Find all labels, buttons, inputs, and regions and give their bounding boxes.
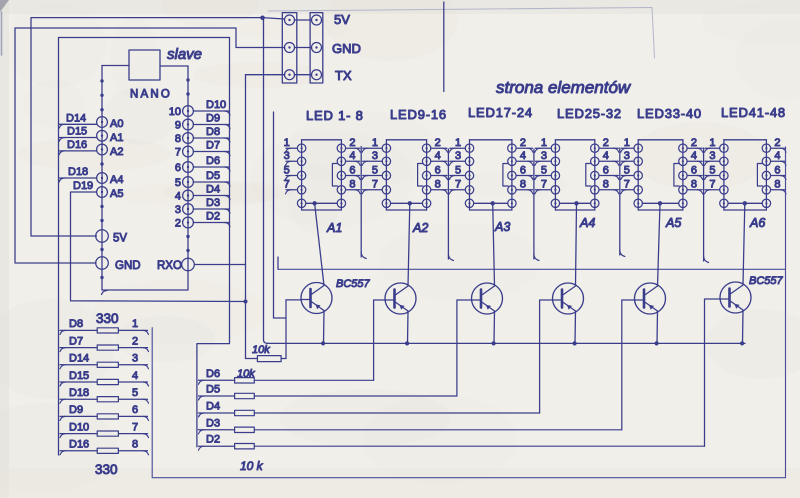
svg-text:5V: 5V [113,233,127,245]
svg-text:LED 1- 8: LED 1- 8 [306,108,364,123]
wire stubs pins 3/4 of block A5 [621,160,634,162]
svg-text:10 k: 10 k [240,459,264,473]
vertical wire x=444 top [443,2,445,92]
pin 10 (D10) of NANO [183,106,194,117]
svg-text:9: 9 [175,120,181,132]
wire stubs pins 7/8 of block A6 [705,189,720,191]
svg-text:8: 8 [175,133,181,145]
resistor 330 row 6 (D9) [60,415,97,417]
pin 4 (D4) of NANO [183,190,194,201]
svg-text:1: 1 [624,137,630,149]
pins 5/6 of block A1 [297,171,305,179]
serial header pin row 5V [285,15,295,25]
wire base Q4 [540,300,553,413]
svg-text:2: 2 [774,137,780,149]
svg-text:3: 3 [372,150,378,162]
pins 1/2 of block A3 [465,144,473,152]
long row return line (right edge + bottom + 330 bus) [152,147,785,478]
wire D6 row to Q2 base bus [254,379,373,381]
wire stubs pins 1/2 of block A6 [705,147,720,149]
svg-text:D2: D2 [206,211,220,223]
pins 1/2 of block A4 [551,144,559,152]
wire stubs pins 7/8 of block A2 [363,189,383,191]
pin 7 (D7) of NANO [183,146,194,157]
svg-text:7: 7 [132,421,138,433]
svg-text:D5: D5 [206,170,220,182]
unused pin dot [100,79,103,82]
pins 3/4 of block A4 [551,157,559,165]
serial connector header pins 5V GND TX [282,13,297,83]
wire stubs pins 5/6 of block A2 [363,175,383,177]
wire usb to left pin column [102,65,129,67]
svg-text:A2: A2 [110,146,123,158]
wire stubs pins 3/4 of block A2 [363,160,383,162]
svg-text:4: 4 [691,150,697,162]
pins 1/2 of block A6 [720,144,728,152]
svg-text:5: 5 [372,164,378,176]
pins 7/8 of block A2 [382,186,390,194]
svg-text:4: 4 [603,150,609,162]
svg-text:GND: GND [115,260,141,272]
svg-text:5V: 5V [334,12,350,27]
transistor Q1 BC557 [301,283,332,314]
svg-text:D3: D3 [206,417,220,429]
svg-text:7: 7 [175,147,181,159]
transistor Q3 BC557 [472,283,503,314]
svg-text:6: 6 [175,162,181,174]
resistor 10k row D2 [198,445,234,447]
junction Q2 emitter on rail [405,341,409,345]
resistor 330 row 1 (D8) [60,329,97,331]
svg-text:8: 8 [691,179,697,191]
svg-text:3: 3 [624,150,630,162]
wires D14 D15 D16 D18 from NANO left pins to box edge [60,123,97,125]
pins 1/2 of block A2 [382,144,390,152]
pins 1/2 of block A5 [634,144,642,152]
pins 7/8 of block A5 [634,186,642,194]
svg-text:3: 3 [541,150,547,162]
svg-text:5: 5 [284,164,290,176]
svg-text:3: 3 [132,353,138,365]
svg-text:6: 6 [435,164,441,176]
svg-text:D10: D10 [206,99,226,111]
svg-text:LED17-24: LED17-24 [468,105,533,120]
svg-text:1: 1 [709,137,715,149]
svg-text:3: 3 [284,150,290,162]
node A2 junction [408,201,412,205]
svg-text:D9: D9 [69,404,83,416]
pin 5 (D5) of NANO [183,177,194,188]
nano box right edge continuing down to 10k bus [197,38,230,447]
resistor 10k row D5 [198,395,234,397]
pin A0 (D14) of NANO [97,117,108,128]
svg-text:6: 6 [691,164,697,176]
svg-text:RXO: RXO [157,260,182,272]
svg-text:D19: D19 [73,180,93,192]
wire stubs pins 1/2 of block A1 [286,147,297,149]
pins common of block A3 [465,199,473,207]
svg-text:5: 5 [455,164,461,176]
pins common of block A5 [634,199,642,207]
pins common of block A2 [382,199,390,207]
svg-text:1: 1 [541,137,547,149]
wire stubs pins 5/6 of block A1 [286,175,297,177]
svg-text:7: 7 [541,179,547,191]
wire stubs pins 1/2 of block A3 [450,147,465,149]
svg-text:2: 2 [132,335,138,347]
svg-text:D14: D14 [66,112,86,124]
svg-text:D10: D10 [69,421,89,433]
svg-text:6: 6 [349,164,355,176]
svg-text:A0: A0 [110,118,123,130]
wire stubs pins 7/8 of block A1 [286,189,297,191]
svg-text:5: 5 [175,177,181,189]
junction Q1 emitter on rail [321,341,325,345]
pins 3/4 of block A1 [297,157,305,165]
svg-text:2: 2 [691,137,697,149]
unused pin dot [100,276,103,279]
svg-text:slave: slave [167,46,202,63]
transistor Q5 BC557 [635,283,666,314]
svg-text:1: 1 [455,137,461,149]
svg-text:1: 1 [372,137,378,149]
resistor 330 row 8 (D16) [60,450,97,452]
wire A2 common to Q2 collector [408,203,410,286]
svg-text:TX: TX [335,68,352,83]
pins 3/4 of block A3 [465,157,473,165]
svg-text:6: 6 [774,164,780,176]
svg-text:D18: D18 [68,166,88,178]
wire D2 row to Q6 base bus [254,445,704,447]
svg-text:1: 1 [284,137,290,149]
svg-text:D6: D6 [206,368,220,380]
pin A2 (D16) of NANO [97,144,108,155]
pins 1/2 of block A1 [297,144,305,152]
unused pin dot [100,162,103,165]
resistor 10k row D4 [198,412,234,414]
resistor 10k row D6 [198,379,234,381]
svg-text:3: 3 [175,204,181,216]
svg-text:4: 4 [349,150,355,162]
pins 7/8 of block A6 [720,186,728,194]
wire base Q3 [457,300,472,396]
pin 3 (D3) of NANO [183,204,194,215]
junction node 5V bus [260,15,265,20]
pin A5 (D19) of NANO [97,187,108,198]
svg-text:7: 7 [624,179,630,191]
resistor 330 row 3 (D14) [60,364,97,366]
svg-text:2: 2 [435,137,441,149]
svg-text:D18: D18 [69,387,89,399]
node A1 junction [312,201,316,205]
vertical bus left of LED41-48 [703,148,705,261]
emitter supply rail [267,342,745,344]
svg-text:D15: D15 [69,370,89,382]
pin 5V of NANO [96,230,109,243]
svg-text:BC557: BC557 [336,278,371,290]
serial header pin row GND [285,43,295,53]
wire stubs pins 5/6 of block A3 [450,175,465,177]
pins common of block A1 [297,199,305,207]
svg-text:5: 5 [132,387,138,399]
nano box left edge continuing as 330-resistor bus [58,38,60,456]
svg-text:330: 330 [96,311,119,326]
svg-text:D14: D14 [69,353,89,365]
svg-text:D15: D15 [67,126,87,138]
pins common of block A6 [720,199,728,207]
wire stubs pins 5/6 of block A4 [535,175,551,177]
svg-text:8: 8 [349,179,355,191]
faint top scan line [268,8,655,59]
nano left pin column line [101,66,103,291]
svg-text:2: 2 [520,137,526,149]
transistor Q4 BC557 [553,283,584,314]
unused pin dot [100,108,103,111]
pin 6 (D6) of NANO [183,162,194,173]
svg-text:A3: A3 [494,220,510,234]
pins 7/8 of block A4 [551,186,559,194]
unused pin dot [100,94,103,97]
node A5 junction [658,201,662,205]
svg-text:A1: A1 [326,221,342,235]
svg-text:4: 4 [132,370,138,382]
svg-text:A5: A5 [110,188,123,200]
svg-text:3: 3 [455,150,461,162]
svg-text:LED41-48: LED41-48 [721,105,786,120]
svg-text:7: 7 [284,179,290,191]
pins 5/6 of block A6 [720,171,728,179]
unused pin dot [100,248,103,251]
wire stubs pins 1/2 of block A4 [535,147,551,149]
pins 5/6 of block A5 [634,171,642,179]
5V wire: pin 5V -> left -> top -> connector [31,18,285,236]
svg-text:A6: A6 [749,216,765,230]
svg-text:D8: D8 [69,318,83,330]
wire base Q2 [374,300,385,380]
serial header pin row TX [285,70,295,80]
wire A6 common to Q6 collector [743,203,745,285]
vertical bus left of LED25-32 [533,149,535,259]
mystery vertical bus left of LED1-8 [274,112,287,318]
pin A4 (D18) of NANO [97,173,108,184]
svg-text:D3: D3 [206,197,220,209]
resistor 330 row 7 (D10) [60,433,97,435]
svg-text:D4: D4 [206,184,220,196]
wire D5 row to Q3 base bus [254,395,457,397]
svg-text:A1: A1 [110,132,123,144]
node A3 junction [491,201,495,205]
svg-text:2: 2 [175,218,181,230]
svg-text:strona elementów: strona elementów [496,78,632,97]
svg-text:6: 6 [603,164,609,176]
svg-text:D8: D8 [206,126,220,138]
junction Q5 emitter on rail [655,341,659,345]
wire usb to right pin column [160,65,188,67]
svg-text:D16: D16 [67,139,87,151]
nano box top edge [59,37,230,39]
wire A3 common to Q3 collector [493,203,495,286]
5V vertical bus down to emitter rail [264,18,269,343]
horizontal row line y=269 [278,268,786,270]
svg-text:NANO: NANO [130,89,172,101]
resistor 10k Q1 base [257,356,281,362]
svg-text:8: 8 [520,179,526,191]
GND wire: pin GND -> left -> top -> connector [15,28,285,263]
svg-text:D9: D9 [206,113,220,125]
svg-text:4: 4 [774,150,780,162]
wire stubs pins 3/4 of block A4 [535,160,551,162]
wire stubs pins 5/6 of block A5 [621,175,634,177]
wire stubs pins 3/4 of block A3 [450,160,465,162]
pins 5/6 of block A3 [465,171,473,179]
svg-text:A4: A4 [579,216,595,230]
resistor 330 row 2 (D7) [60,347,97,349]
svg-text:7: 7 [709,179,715,191]
transistor Q2 BC557 [385,283,416,314]
pins common of block A4 [551,199,559,207]
svg-text:330: 330 [95,462,118,477]
wire base Q6 [705,299,721,446]
svg-text:LED25-32: LED25-32 [557,106,622,121]
svg-text:GND: GND [332,41,361,56]
vertical bus left of LED9-16 [360,147,362,258]
svg-text:8: 8 [435,179,441,191]
pins 3/4 of block A6 [720,157,728,165]
svg-text:A2: A2 [412,221,428,235]
wire D4 row to Q4 base bus [254,412,539,414]
wire A5 common to Q5 collector [658,203,661,286]
pins 5/6 of block A4 [551,171,559,179]
vertical bus left of LED33-40 [619,148,621,255]
svg-text:LED9-16: LED9-16 [390,107,447,122]
svg-text:3: 3 [709,150,715,162]
pin A1 (D15) of NANO [97,130,108,141]
transistor Q6 BC557 [720,282,751,313]
svg-text:BC557: BC557 [749,275,784,287]
svg-text:8: 8 [132,439,138,451]
wire stubs pins 3/4 of block A6 [705,160,720,162]
pins 7/8 of block A1 [297,186,305,194]
svg-text:4: 4 [175,191,181,203]
svg-text:D6: D6 [206,155,220,167]
svg-text:D2: D2 [206,434,220,446]
svg-text:4: 4 [435,150,441,162]
svg-text:2: 2 [603,137,609,149]
pins 5/6 of block A2 [382,171,390,179]
svg-text:10k: 10k [252,344,270,356]
junction Q6 emitter on rail [740,341,744,345]
svg-text:10: 10 [169,106,181,118]
wire D19 from pin A5 down to TX/base net [71,192,246,302]
wire base Q5 [622,300,635,430]
svg-text:5: 5 [709,164,715,176]
node A4 junction [574,201,578,205]
wire A1 common to Q1 collector [315,203,324,285]
svg-text:6: 6 [520,164,526,176]
stub corner joining row-8 return line [277,257,279,269]
TX wire: connector TX down to RX0 and 10k base resistor [246,74,285,76]
nano right pin column line [187,66,189,290]
svg-text:7: 7 [455,179,461,191]
wire D3 row to Q5 base bus [254,429,622,431]
resistor 10k row D3 [198,429,234,431]
svg-text:LED33-40: LED33-40 [637,106,702,121]
junction Q3 emitter on rail [492,341,496,345]
junction Q4 emitter on rail [573,341,577,345]
nano bottom edge [102,289,188,291]
svg-text:1: 1 [132,318,138,330]
wire stubs pins 7/8 of block A5 [621,189,634,191]
unused pin dot [100,205,103,208]
svg-text:D5: D5 [206,384,220,396]
svg-text:4: 4 [520,150,526,162]
svg-text:2: 2 [349,137,355,149]
svg-text:A5: A5 [665,216,681,230]
wire stubs pins 1/2 of block A2 [363,147,383,149]
wire A4 common to Q4 collector [576,203,577,286]
wire stubs pins 1/2 of block A5 [621,147,634,149]
pins 3/4 of block A5 [634,157,642,165]
node A6 junction [743,201,747,205]
svg-text:8: 8 [603,179,609,191]
resistor 330 row 4 (D15) [60,381,97,383]
wire stubs pins 5/6 of block A6 [705,175,720,177]
pin RX0 of NANO [182,258,195,271]
svg-text:D16: D16 [69,439,89,451]
svg-text:7: 7 [372,179,378,191]
svg-text:5: 5 [624,164,630,176]
unused pin dot [100,219,103,222]
svg-text:A4: A4 [110,174,123,186]
resistor 330 row 5 (D18) [60,398,97,400]
RX0 wire [195,264,246,266]
svg-text:D7: D7 [69,335,83,347]
pin GND of NANO [96,257,109,270]
pin 2 (D2) of NANO [183,217,194,228]
pin 8 (D8) of NANO [183,133,194,144]
wire stubs pins 7/8 of block A3 [450,189,465,191]
svg-text:6: 6 [132,404,138,416]
wire stubs pins 7/8 of block A4 [535,189,551,191]
USB connector square on NANO [129,50,160,80]
pins 3/4 of block A2 [382,157,390,165]
svg-text:D4: D4 [206,401,220,413]
svg-text:D7: D7 [206,140,220,152]
svg-text:5: 5 [541,164,547,176]
svg-text:8: 8 [774,179,780,191]
wire stubs pins 3/4 of block A1 [286,160,297,162]
pins 7/8 of block A3 [465,186,473,194]
pin 9 (D9) of NANO [183,119,194,130]
vertical bus left of LED17-24 [447,149,449,259]
